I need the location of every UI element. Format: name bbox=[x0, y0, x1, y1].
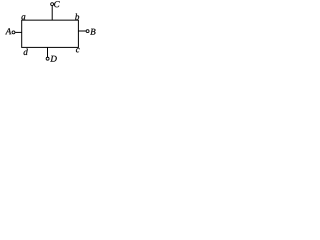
wire lead D bbox=[47, 47, 49, 57]
terminal B circle bbox=[86, 30, 89, 33]
terminal D circle bbox=[46, 57, 49, 60]
node c bbox=[76, 48, 80, 52]
node d bbox=[24, 49, 28, 55]
node b bbox=[75, 13, 79, 19]
node a bbox=[21, 15, 25, 19]
label C bbox=[54, 1, 60, 7]
wire lead B bbox=[78, 30, 86, 32]
label D bbox=[50, 56, 56, 62]
four-terminal network box abcd bbox=[22, 20, 79, 47]
terminal A circle bbox=[12, 31, 15, 34]
label B bbox=[90, 29, 95, 35]
wire lead C bbox=[51, 6, 53, 21]
terminal C circle bbox=[51, 3, 54, 6]
wire lead A bbox=[15, 31, 22, 33]
label A bbox=[5, 28, 11, 34]
